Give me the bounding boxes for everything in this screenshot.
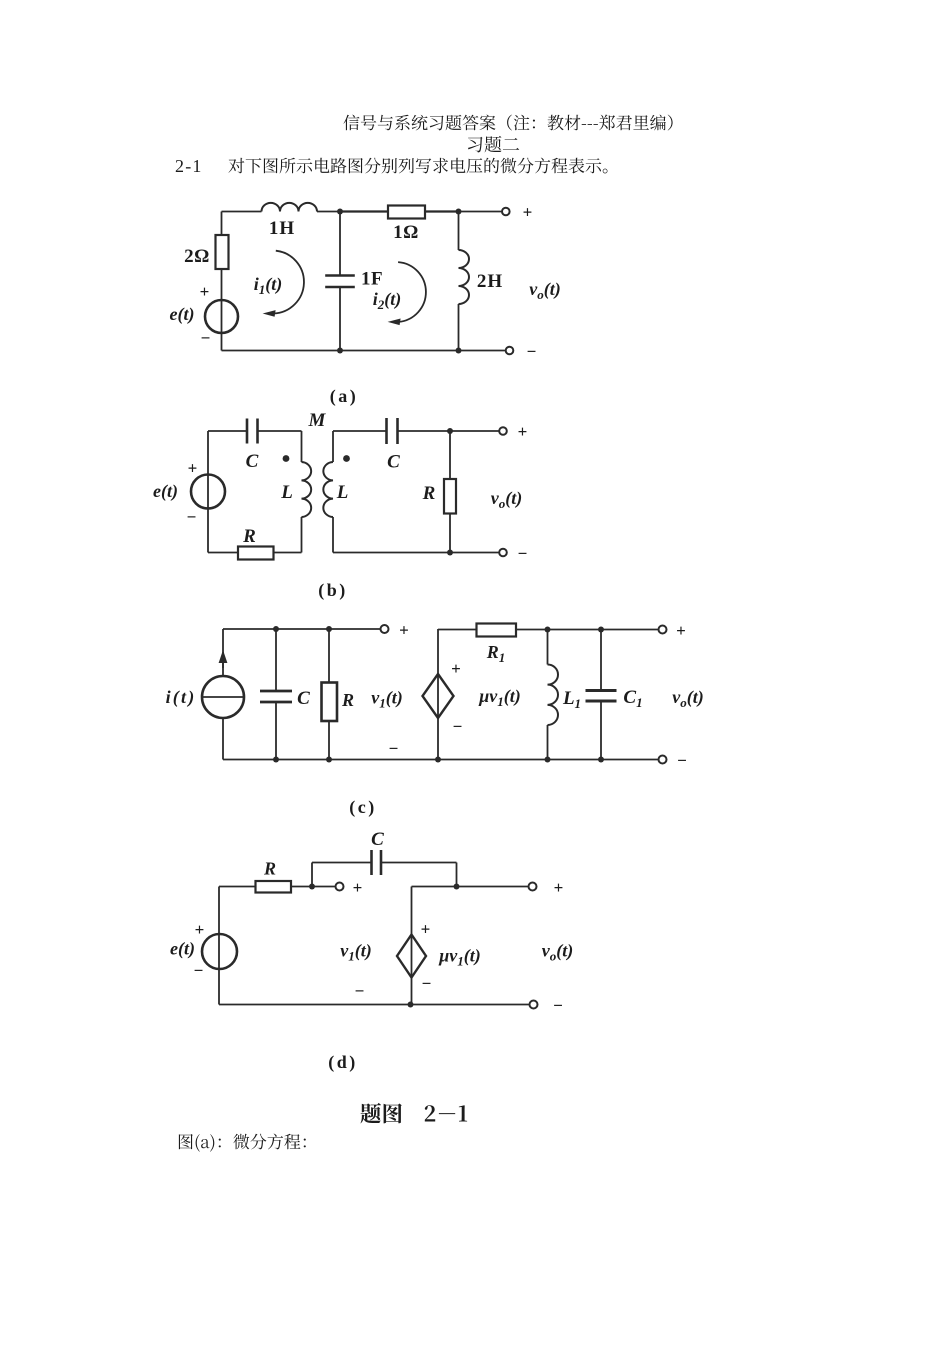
- node (c) C1 top: [598, 627, 604, 633]
- svg-text:1H: 1H: [269, 218, 295, 239]
- resistor R (b) bottom: [238, 547, 274, 560]
- svg-text:−: −: [518, 544, 528, 563]
- svg-text:+: +: [554, 878, 564, 897]
- wire (d) node to v1 terminal: [312, 886, 336, 888]
- svg-text:M: M: [308, 410, 327, 431]
- svg-text:C1: C1: [623, 687, 642, 710]
- wire (c) bottom: [223, 759, 659, 761]
- terminal (c) v1 +: [381, 625, 389, 633]
- capacitor C (d): [370, 850, 373, 875]
- svg-text:vo(t): vo(t): [529, 279, 561, 302]
- capacitor C1 (c): [586, 689, 617, 692]
- resistor R (b) load upper wire: [449, 431, 451, 479]
- svg-text:C: C: [246, 451, 259, 472]
- svg-text:v1(t): v1(t): [371, 688, 403, 711]
- capacitor C branch right riser: [456, 863, 458, 887]
- svg-text:−: −: [527, 342, 537, 361]
- svg-text:−: −: [389, 739, 399, 758]
- dependent source upper wire (d): [411, 887, 413, 935]
- terminal (d) output -: [530, 1001, 538, 1009]
- svg-text:−: −: [355, 982, 365, 1001]
- node (c) top R junction: [326, 626, 332, 632]
- capacitor C (c) lower wire: [275, 702, 277, 760]
- svg-text:R: R: [242, 526, 256, 547]
- svg-text:L: L: [280, 482, 293, 503]
- capacitor C1 upper wire: [600, 630, 602, 691]
- node (c) bottom dep source: [435, 757, 441, 763]
- text: header line 1: [344, 115, 673, 131]
- current source i(t) arrow: [222, 652, 224, 668]
- svg-text:C: C: [297, 688, 310, 709]
- capacitor C1 lower wire: [600, 701, 602, 760]
- resistor R (c) upper wire: [328, 629, 330, 683]
- loop current i2(t) arrow: [398, 262, 426, 322]
- terminal (b) output +: [499, 427, 507, 435]
- svg-text:e(t): e(t): [153, 481, 178, 502]
- wire (a) node1 to resistor 1ohm: [340, 210, 388, 212]
- wire (c) top left section: [223, 628, 381, 630]
- resistor R1 (c): [477, 624, 517, 637]
- svg-text:μv1(t): μv1(t): [438, 946, 481, 969]
- svg-text:−: −: [194, 961, 204, 980]
- capacitor C left (b): [246, 419, 249, 444]
- wire (c) dep source to R1: [438, 629, 477, 631]
- node (b) top junction: [447, 428, 453, 434]
- svg-text:R1: R1: [486, 642, 506, 665]
- svg-text:+: +: [676, 621, 686, 640]
- terminal (a) output +: [502, 208, 510, 216]
- capacitor 1F wire lower: [339, 287, 341, 351]
- wire (b) node to + terminal: [450, 430, 499, 432]
- dependent source lower wire (c): [437, 718, 439, 760]
- inductor L1: [548, 665, 559, 726]
- node (c) bottom C1: [598, 757, 604, 763]
- wire (a) left branch vertical: [221, 212, 223, 236]
- svg-text:+: +: [399, 621, 409, 640]
- svg-text:e(t): e(t): [170, 304, 195, 325]
- dependent source mu*v1 (c): [423, 674, 454, 718]
- wire (b) cap to node: [398, 430, 451, 432]
- inductor L1 upper wire: [547, 630, 549, 665]
- terminal (a) output -: [506, 347, 514, 355]
- text: figure caption 题图: [361, 1103, 402, 1124]
- capacitor 1F: [325, 274, 355, 277]
- svg-text:1Ω: 1Ω: [393, 222, 419, 243]
- node (b) bottom junction: [447, 550, 453, 556]
- wire (a) resistor 2ohm to source and through to bottom: [221, 269, 223, 351]
- svg-text:+: +: [200, 282, 210, 301]
- svg-text:(c): (c): [349, 797, 376, 818]
- svg-text:C: C: [371, 829, 384, 850]
- terminal (c) output -: [659, 756, 667, 764]
- svg-text:2Ω: 2Ω: [184, 246, 210, 267]
- text: header line 2: [468, 136, 519, 153]
- wire (d) source branch: [218, 887, 220, 1005]
- svg-text:e(t): e(t): [170, 939, 195, 960]
- node (a) bottom-mid junction: [337, 348, 343, 354]
- wire (a) top-left from source branch to inductor: [222, 211, 262, 213]
- current source wire top: [222, 629, 224, 676]
- terminal (b) output -: [499, 549, 507, 557]
- wire (a) resistor to node2: [425, 210, 459, 212]
- terminal (d) output +: [529, 883, 537, 891]
- svg-text:(a): (a): [330, 386, 359, 407]
- wire (b) cap to primary winding: [258, 430, 302, 432]
- svg-text:v1(t): v1(t): [340, 941, 372, 964]
- capacitor C (c): [260, 690, 292, 693]
- wire (c) R1 to L1 node: [516, 629, 548, 631]
- svg-text:2-1: 2-1: [175, 156, 203, 176]
- svg-text:vo(t): vo(t): [672, 687, 704, 710]
- wire (a) bottom: [222, 350, 507, 352]
- svg-text:+: +: [195, 920, 205, 939]
- wire (c) C1 to + terminal: [601, 629, 659, 631]
- svg-text:−: −: [187, 508, 197, 527]
- inductor L secondary: [323, 462, 333, 517]
- dependent source lower wire (d): [411, 978, 413, 1005]
- svg-text:+: +: [518, 422, 528, 441]
- capacitor 1F wire upper: [339, 212, 341, 276]
- voltage source e(t) (d): [202, 934, 237, 969]
- wire (b) bottom right: [333, 552, 499, 554]
- svg-text:(b): (b): [318, 580, 348, 601]
- voltage source e(t) (b): [191, 475, 225, 509]
- svg-text:vo(t): vo(t): [491, 488, 523, 511]
- svg-text:i(t): i(t): [166, 687, 197, 708]
- resistor R (c) lower wire: [328, 721, 330, 760]
- svg-text:R: R: [341, 690, 354, 710]
- svg-text:L: L: [336, 482, 349, 503]
- node (c) L1 top: [545, 627, 551, 633]
- secondary winding upper wire: [332, 431, 334, 462]
- node (a) top-mid junction: [337, 209, 343, 215]
- dependent source mu*v1 (d): [397, 935, 426, 978]
- svg-text:1F: 1F: [361, 269, 383, 290]
- capacitor C (c) upper wire: [275, 629, 277, 691]
- inductor L1 lower wire: [547, 725, 549, 760]
- resistor 2-ohm: [216, 235, 229, 269]
- wire (d) output node: [412, 886, 529, 888]
- terminal (d) v1 +: [336, 883, 344, 891]
- node (c) bottom R: [326, 757, 332, 763]
- secondary winding lower wire: [332, 517, 334, 553]
- svg-text:+: +: [451, 659, 461, 678]
- primary winding lower wire: [301, 517, 303, 553]
- wire (b) source branch: [207, 475, 209, 553]
- svg-text:vo(t): vo(t): [542, 941, 574, 964]
- inductor L primary: [302, 462, 312, 517]
- voltage source e(t) (a): [205, 300, 238, 333]
- wire (c) L1 to C1 node: [548, 629, 602, 631]
- svg-text:+: +: [353, 878, 363, 897]
- resistor 1-ohm: [388, 206, 425, 219]
- node (d) bottom dep source: [408, 1002, 414, 1008]
- coupling dot secondary: [343, 455, 350, 462]
- wire (b) secondary top to cap: [333, 430, 387, 432]
- wire (b) primary bottom to resistor R: [274, 552, 302, 554]
- inductor 2H wire upper: [458, 212, 460, 251]
- svg-text:+: +: [188, 459, 198, 478]
- current source i(t) circle: [202, 676, 244, 718]
- dependent source upper wire (c): [437, 629, 439, 674]
- resistor R (b) load: [444, 479, 456, 514]
- svg-text:−: −: [453, 717, 463, 736]
- svg-text:−: −: [677, 751, 687, 770]
- svg-text:L1: L1: [562, 688, 581, 711]
- svg-text:(d): (d): [328, 1052, 358, 1073]
- wire (a) node2 to + terminal: [459, 211, 503, 213]
- primary winding upper wire: [301, 431, 303, 462]
- terminal (c) output +: [659, 626, 667, 634]
- node (c) bottom L1: [545, 757, 551, 763]
- svg-text:i2(t): i2(t): [373, 289, 402, 312]
- resistor R load lower wire: [449, 514, 451, 553]
- capacitor C branch right run: [381, 862, 457, 864]
- svg-text:2H: 2H: [477, 271, 503, 292]
- text: answer lead-in: [179, 1134, 306, 1152]
- wire (d) resistor to node: [291, 886, 312, 888]
- wire (b) resistor R to source corner: [208, 552, 238, 554]
- wire (d) source to resistor R: [219, 886, 256, 888]
- loop current i1(t) arrow: [274, 251, 304, 314]
- coupling dot primary: [283, 455, 290, 462]
- svg-text:R: R: [263, 859, 276, 879]
- node (c) bottom cap: [273, 757, 279, 763]
- node (a) bottom-right junction: [456, 348, 462, 354]
- inductor 2H: [459, 250, 470, 304]
- wire (d) bottom: [219, 1004, 530, 1006]
- svg-text:+: +: [421, 920, 431, 939]
- svg-text:i1(t): i1(t): [254, 274, 283, 297]
- svg-text:+: +: [523, 203, 533, 222]
- text: figure caption 2-1: [425, 1105, 467, 1121]
- node (d) after R: [309, 884, 315, 890]
- svg-text:μv1(t): μv1(t): [478, 686, 521, 709]
- resistor R (d): [256, 881, 292, 893]
- wire (b) left loop top-left: [208, 430, 247, 432]
- node (c) top cap junction: [273, 626, 279, 632]
- capacitor C branch left run: [312, 862, 372, 864]
- wire (a) inductor to node1: [317, 211, 340, 213]
- svg-text:−: −: [553, 996, 563, 1015]
- resistor R (c): [322, 683, 338, 722]
- svg-text:−: −: [422, 974, 432, 993]
- capacitor C right (b): [385, 418, 388, 444]
- inductor 2H wire lower: [458, 304, 460, 351]
- inductor 1H: [262, 203, 318, 212]
- node (a) top-right junction: [456, 209, 462, 215]
- text: problem statement: [229, 158, 608, 174]
- current source wire bottom: [222, 718, 224, 760]
- capacitor C branch left riser: [311, 863, 313, 887]
- node (d) output junction: [454, 884, 460, 890]
- svg-text:R: R: [422, 483, 436, 504]
- svg-text:C: C: [387, 452, 400, 473]
- svg-text:−: −: [201, 329, 211, 348]
